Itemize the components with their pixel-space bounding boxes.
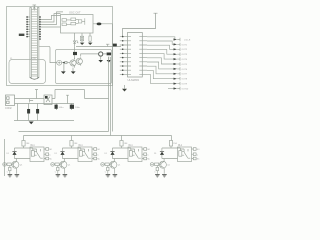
- svg-text:100u: 100u: [59, 107, 65, 109]
- svg-text:ULN2803: ULN2803: [128, 78, 140, 82]
- svg-text:OUT4: OUT4: [182, 59, 188, 61]
- svg-text:OUT9: OUT9: [182, 84, 188, 86]
- svg-text:OUT6: OUT6: [182, 69, 188, 71]
- svg-text:CON2: CON2: [5, 107, 12, 110]
- svg-text:OUT5: OUT5: [182, 64, 188, 66]
- svg-text:OSC CKT: OSC CKT: [69, 10, 81, 14]
- svg-text:OUT2: OUT2: [182, 49, 188, 51]
- svg-text:LCD: LCD: [32, 58, 37, 60]
- svg-text:LCD-E: LCD-E: [184, 39, 191, 41]
- svg-text:OUT10: OUT10: [182, 88, 190, 90]
- svg-text:OUT3: OUT3: [182, 54, 188, 56]
- svg-text:OUT7: OUT7: [182, 74, 188, 76]
- svg-text:OUT1: OUT1: [182, 44, 188, 46]
- svg-text:OUT8: OUT8: [182, 79, 188, 81]
- svg-text:100n: 100n: [75, 107, 81, 109]
